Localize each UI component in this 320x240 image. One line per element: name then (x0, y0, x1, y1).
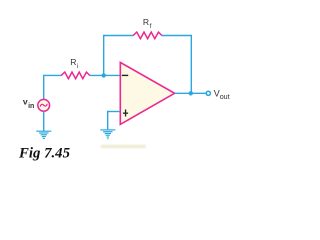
minus sign (inverting input) (122, 75, 128, 76)
wire: non-inverting input vertical to ground (107, 111, 109, 130)
svg-text:R: R (70, 57, 76, 67)
op-amp U1 (120, 62, 174, 124)
plus sign (non-inverting input) (123, 110, 128, 117)
node: inverting input junction (102, 73, 106, 77)
node: output junction (189, 91, 193, 95)
ground (under non-inverting input) (100, 129, 115, 139)
wire: input left segment (vin to Ri) (44, 74, 62, 76)
wire: vin top vertical (43, 75, 45, 100)
wire: feedback right vertical (190, 35, 192, 94)
wire: input right segment (Ri to inverting input) (89, 74, 120, 76)
resistor Ri (61, 72, 89, 79)
wire: feedback top-left segment (104, 35, 134, 37)
svg-text:out: out (220, 92, 230, 101)
wire: non-inverting input horizontal (108, 111, 120, 113)
svg-text:Fig 7.45: Fig 7.45 (18, 145, 71, 161)
terminal vout (open circle) (206, 91, 210, 95)
source vin (AC source) (38, 99, 50, 111)
wire: feedback top-right segment (162, 35, 192, 37)
wire: output horizontal (175, 92, 206, 94)
svg-text:in: in (28, 103, 34, 110)
wire: feedback left vertical (103, 35, 105, 76)
resistor Rf (133, 32, 162, 39)
ground (under vin) (36, 131, 51, 139)
tilde inside vin source (40, 104, 47, 106)
svg-text:R: R (143, 17, 149, 27)
svg-text:f: f (150, 23, 152, 30)
wire: vin bottom vertical to ground (43, 111, 45, 131)
